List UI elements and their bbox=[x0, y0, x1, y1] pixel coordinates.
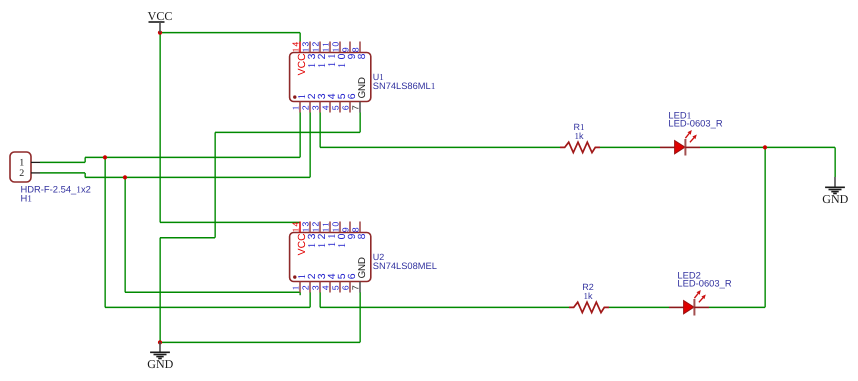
svg-text:6: 6 bbox=[341, 104, 351, 110]
IC U1 pin 14 stub bbox=[299, 42, 301, 53]
IC U1 pin 7 stub bbox=[359, 102, 361, 113]
wire net LED2 horizontal to corner bbox=[709, 306, 765, 308]
wire GND-net horizontal from ground symbol to U2 pin 7 bbox=[160, 341, 360, 343]
IC U2 pin 13 stub bbox=[309, 222, 311, 233]
junction net H1-pin1 bbox=[103, 155, 107, 159]
IC U2 pin 9 stub bbox=[349, 222, 351, 233]
LED LED1 anode lead bbox=[660, 146, 675, 148]
power symbol VCC bar bbox=[149, 21, 165, 23]
junction on LED1-GND line bbox=[763, 145, 767, 149]
LED LED2 emission arrow 2 bbox=[699, 298, 703, 303]
svg-text:2: 2 bbox=[19, 168, 24, 179]
svg-text:GND: GND bbox=[357, 77, 368, 98]
svg-text:14: 14 bbox=[291, 220, 301, 232]
junction at VCC symbol bbox=[158, 30, 162, 34]
wire net H1-pin1 vertical rise into U1 pin 1 bbox=[299, 113, 301, 158]
wire net U2-pin3 horizontal to R2 bbox=[320, 306, 569, 308]
svg-text:LED-0603_R: LED-0603_R bbox=[677, 278, 731, 289]
wire VCC-net horizontal from VCC symbol to U1 pin 14 bbox=[160, 32, 300, 34]
LED LED2 emission arrow 1 bbox=[694, 294, 698, 299]
IC U2 body SN74 package bbox=[290, 233, 371, 282]
svg-text:8: 8 bbox=[357, 230, 368, 239]
IC U1 body SN74 package bbox=[290, 53, 371, 102]
IC U1 pin 10 stub bbox=[339, 42, 341, 53]
IC U2 pin 10 stub bbox=[339, 222, 341, 233]
resistor R1 body bbox=[560, 142, 600, 152]
IC U2 pin 11 stub bbox=[329, 222, 331, 233]
LED LED1 emission arrow 2 bbox=[690, 138, 694, 143]
svg-text:4: 4 bbox=[321, 284, 331, 290]
svg-text:5: 5 bbox=[331, 104, 341, 110]
wire net LED1-GND horizontal to right bbox=[700, 146, 835, 148]
IC U2 pin 12 stub bbox=[319, 222, 321, 233]
connector H1 body bbox=[10, 152, 31, 182]
IC U2 pin 2 stub bbox=[309, 282, 311, 293]
wire GND-net vertical rise into U2 pin 7 bbox=[359, 292, 361, 342]
IC U2 pin 8 stub bbox=[359, 222, 361, 233]
ground symbol bottom bars bbox=[150, 352, 170, 358]
ground symbol bottom stem bbox=[159, 342, 161, 352]
IC U1 pin 11 stub bbox=[329, 42, 331, 53]
wire net H1-pin2 vertical drop from junction bbox=[124, 177, 126, 292]
wire net U1-pin3 horizontal to R1 bbox=[320, 146, 560, 148]
svg-text:7: 7 bbox=[351, 284, 361, 290]
IC U1 pin 12 stub bbox=[319, 42, 321, 53]
ground symbol right stem bbox=[834, 177, 836, 187]
wire net R1-LED1 between resistor and LED bbox=[600, 146, 660, 148]
svg-text:LED-0603_R: LED-0603_R bbox=[668, 118, 722, 129]
junction net H1-pin2 bbox=[123, 175, 127, 179]
wire net U2-pin3 vertical drop from U2 pin 3 bbox=[319, 292, 321, 307]
IC U2 pin 6 stub bbox=[349, 282, 351, 293]
svg-text:SN74LS08MEL: SN74LS08MEL bbox=[373, 261, 437, 271]
svg-text:3: 3 bbox=[311, 284, 321, 290]
svg-text:6: 6 bbox=[341, 284, 351, 290]
wire GND-net vertical middle bbox=[214, 132, 216, 237]
wire net H1-pin1 vertical drop from junction bbox=[104, 157, 106, 307]
LED LED1 triangle body bbox=[675, 141, 685, 154]
svg-text:2: 2 bbox=[301, 104, 311, 110]
svg-text:GND: GND bbox=[147, 357, 173, 371]
connector H1 pin 1 stub bbox=[31, 161, 40, 163]
IC U1 pin 2 stub bbox=[309, 102, 311, 113]
LED LED2 triangle body bbox=[684, 301, 694, 314]
IC U1 pin 8 stub bbox=[359, 42, 361, 53]
wire net H1-pin1 horizontal to U1 pin 1 bbox=[105, 156, 300, 158]
svg-text:3: 3 bbox=[311, 104, 321, 110]
wire VCC-net vertical drop into U1 pin 14 bbox=[299, 33, 301, 42]
wire VCC-net horizontal to U2 pin 14 bbox=[160, 221, 300, 223]
wire GND-net vertical drop from U1 pin 7 bbox=[359, 113, 361, 133]
IC U1 pin 9 stub bbox=[349, 42, 351, 53]
svg-text:GND: GND bbox=[822, 192, 848, 206]
svg-text:1: 1 bbox=[291, 105, 301, 111]
wire net H1-pin2 horizontal to U2 pin 1 bbox=[125, 291, 300, 293]
IC U1 pin 6 stub bbox=[349, 102, 351, 113]
IC U1 pin 4 stub bbox=[329, 102, 331, 113]
IC U2 pin 14 stub bbox=[299, 222, 301, 233]
svg-text:H1: H1 bbox=[21, 193, 33, 205]
wire net H1-pin2 vertical rise into U2 pin 1 bbox=[299, 292, 301, 295]
wire net H1-pin1 from header pin 1 to step bbox=[40, 161, 85, 163]
svg-text:14: 14 bbox=[291, 40, 301, 52]
IC U1 pin 13 stub bbox=[309, 42, 311, 53]
wire net R2-LED2 between resistor and LED bbox=[609, 306, 669, 308]
power symbol VCC stem bbox=[159, 22, 161, 33]
IC U2 pin 4 stub bbox=[329, 282, 331, 293]
wire VCC-net vertical main from VCC symbol down bbox=[159, 33, 161, 223]
svg-text:SN74LS86ML1: SN74LS86ML1 bbox=[373, 81, 436, 92]
IC U1 pin 1 stub bbox=[299, 102, 301, 113]
wire net H1-pin2 from header pin 2 to step bbox=[40, 172, 85, 174]
svg-text:1k: 1k bbox=[584, 291, 594, 301]
junction at bottom GND symbol bbox=[158, 340, 162, 344]
svg-text:5: 5 bbox=[331, 284, 341, 290]
IC U2 pin 1 stub bbox=[299, 282, 301, 293]
svg-text:7: 7 bbox=[351, 104, 361, 110]
wire net H1-pin2 vertical rise into U1 pin 2 bbox=[309, 113, 311, 178]
wire GND-net horizontal left from U1 pin 7 bbox=[215, 131, 360, 133]
LED LED1 cathode bar bbox=[684, 139, 686, 156]
wire net LED1-GND vertical drop to GND symbol bbox=[834, 147, 836, 177]
wire net H1-pin1 vertical rise into U2 pin 2 bbox=[309, 292, 311, 307]
wire GND-net horizontal jog left bbox=[160, 237, 215, 239]
svg-text:HDR-F-2.54_1x2: HDR-F-2.54_1x2 bbox=[21, 183, 91, 195]
LED LED2 cathode lead bbox=[694, 306, 709, 308]
svg-text:8: 8 bbox=[357, 50, 368, 59]
connector H1 pin 2 stub bbox=[31, 172, 40, 174]
svg-text:1: 1 bbox=[291, 285, 301, 291]
svg-text:1: 1 bbox=[19, 157, 24, 168]
wire net H1-pin1 horizontal to U2 pin 2 bbox=[105, 306, 310, 308]
svg-text:GND: GND bbox=[357, 257, 368, 278]
IC U1 pin 1 marker dot bbox=[293, 95, 296, 98]
IC U2 pin 3 stub bbox=[319, 282, 321, 293]
LED LED1 cathode lead bbox=[685, 146, 700, 148]
wire net U1-pin3 vertical drop from U1 pin 3 bbox=[319, 113, 321, 148]
wire GND-net vertical down to ground symbol bbox=[159, 238, 161, 343]
wire net LED-GND vertical link between LED1 and LED2 lines bbox=[764, 147, 766, 307]
resistor R2 body bbox=[569, 302, 609, 312]
IC U2 pin 7 stub bbox=[359, 282, 361, 293]
IC U1 pin 5 stub bbox=[339, 102, 341, 113]
LED LED1 emission arrow 1 bbox=[685, 134, 689, 139]
svg-text:4: 4 bbox=[321, 104, 331, 110]
svg-text:2: 2 bbox=[301, 284, 311, 290]
IC U2 pin 5 stub bbox=[339, 282, 341, 293]
IC U2 pin 1 marker dot bbox=[293, 275, 296, 278]
LED LED2 anode lead bbox=[669, 306, 684, 308]
LED LED2 cathode bar bbox=[693, 299, 695, 316]
IC U1 pin 3 stub bbox=[319, 102, 321, 113]
wire net H1-pin2 horizontal to U1 pin 2 bbox=[125, 176, 310, 178]
svg-text:VCC: VCC bbox=[148, 9, 173, 23]
svg-text:1k: 1k bbox=[575, 131, 585, 141]
ground symbol right bars bbox=[825, 187, 845, 193]
